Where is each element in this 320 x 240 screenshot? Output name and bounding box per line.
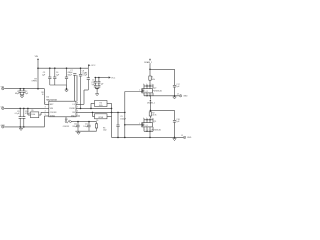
resistor R2 bbox=[149, 101, 156, 118]
svg-text:ON/OFF: ON/OFF bbox=[50, 112, 58, 114]
connector J4 GND bbox=[177, 93, 188, 97]
capacitor C3 bbox=[42, 68, 51, 85]
svg-text:0.1µF: 0.1µF bbox=[82, 72, 86, 74]
svg-text:VCC: VCC bbox=[91, 65, 96, 67]
ground comp bbox=[77, 131, 80, 134]
svg-text:VIN: VIN bbox=[35, 56, 39, 58]
wire VIN rail bbox=[4, 88, 44, 90]
svg-text:1500pF: 1500pF bbox=[120, 118, 126, 120]
svg-text:1µF: 1µF bbox=[101, 84, 104, 86]
svg-text:10: 10 bbox=[42, 94, 44, 96]
wire C13 top link bbox=[150, 68, 175, 70]
capacitor C17 bbox=[173, 69, 180, 96]
wire GND rail corner bbox=[44, 116, 46, 127]
svg-text:3: 3 bbox=[45, 107, 46, 109]
wire Q2 gate stub bbox=[141, 91, 142, 93]
svg-text:R5: R5 bbox=[31, 110, 33, 112]
wire cap tie 2 bbox=[50, 85, 67, 90]
svg-text:1µF: 1µF bbox=[92, 84, 95, 86]
svg-text:0.1µF: 0.1µF bbox=[15, 113, 21, 115]
svg-text:MAX5035B: MAX5035B bbox=[46, 98, 57, 101]
svg-text:GND: GND bbox=[1, 125, 6, 127]
op-amp U1 MAX5035B bbox=[46, 97, 76, 118]
power flag VCC bbox=[88, 64, 96, 67]
svg-text:1%: 1% bbox=[96, 120, 99, 122]
svg-text:Q2: Q2 bbox=[146, 91, 148, 93]
svg-text:2: 2 bbox=[45, 103, 46, 105]
wire ladder to flag bbox=[99, 77, 109, 79]
svg-text:VCC: VCC bbox=[111, 77, 116, 79]
svg-text:SGND: SGND bbox=[50, 116, 56, 118]
svg-text:Q2: Q2 bbox=[154, 88, 157, 90]
svg-text:FB: FB bbox=[72, 112, 75, 114]
capacitor C10 bbox=[22, 108, 31, 127]
svg-text:FDS6912A: FDS6912A bbox=[152, 129, 162, 132]
node ladder labels bbox=[91, 80, 103, 86]
wire gate Q1 bbox=[125, 124, 141, 126]
jumper JU1 bbox=[63, 117, 72, 128]
wire VIN vertical bbox=[37, 60, 39, 89]
svg-text:1µF: 1µF bbox=[42, 74, 46, 76]
svg-text:1µF: 1µF bbox=[176, 86, 180, 88]
svg-text:6: 6 bbox=[77, 111, 78, 113]
svg-text:Q1: Q1 bbox=[154, 121, 157, 123]
svg-text:1µF: 1µF bbox=[176, 121, 180, 123]
capacitor C2 bbox=[22, 88, 29, 95]
svg-text:68µF: 68µF bbox=[68, 74, 73, 76]
wire rail FB bbox=[80, 112, 126, 114]
svg-text:7: 7 bbox=[77, 107, 78, 109]
capacitor C9 bbox=[15, 108, 22, 127]
wire ON rail bbox=[4, 108, 44, 110]
capacitor C16 bbox=[116, 112, 126, 137]
transistor Q2 bbox=[139, 84, 162, 96]
capacitor C8 bbox=[79, 68, 86, 108]
capacitor C1 bbox=[15, 88, 22, 95]
power flag VIN top bbox=[35, 56, 39, 60]
svg-text:GND: GND bbox=[71, 116, 76, 118]
wire Q1 source bbox=[149, 131, 151, 137]
svg-text:100k: 100k bbox=[31, 114, 35, 116]
power flag VCC2 bbox=[109, 76, 116, 79]
ground left rail bbox=[19, 127, 22, 130]
svg-text:24.9k: 24.9k bbox=[152, 115, 156, 117]
svg-text:5: 5 bbox=[45, 114, 46, 116]
pin stubs U1 right bbox=[76, 103, 84, 117]
svg-text:330pF: 330pF bbox=[72, 126, 77, 128]
svg-text:PGND: PGND bbox=[69, 108, 75, 110]
wire bottom rail bbox=[112, 137, 184, 139]
svg-text:Q1: Q1 bbox=[146, 125, 148, 127]
connector J2 ON terminal bbox=[1, 106, 5, 109]
ground bottom rail bbox=[173, 137, 176, 140]
svg-text:249k: 249k bbox=[151, 79, 155, 81]
svg-text:68µF: 68µF bbox=[15, 93, 20, 95]
transistor Q1 bbox=[139, 118, 161, 132]
wire divider mid bbox=[111, 103, 113, 137]
wire ladder down bbox=[96, 89, 98, 93]
capacitor C13 bbox=[94, 78, 97, 89]
connector J5 GND bbox=[181, 135, 192, 139]
svg-text:GND: GND bbox=[183, 96, 188, 98]
capacitor C7 bbox=[68, 70, 77, 101]
wire gate net vertical bbox=[124, 92, 126, 138]
svg-text:10Ω: 10Ω bbox=[103, 130, 107, 132]
wire jumper net bbox=[71, 121, 96, 123]
ground input caps bbox=[20, 95, 23, 98]
svg-text:FDS6912A: FDS6912A bbox=[153, 90, 163, 93]
ground input caps 2 bbox=[65, 89, 68, 92]
capacitor C6 bbox=[82, 65, 90, 90]
capacitor C18 bbox=[173, 110, 180, 137]
ground source rail bbox=[173, 96, 176, 99]
wire C18 link bbox=[150, 110, 175, 112]
svg-text:0.1µF: 0.1µF bbox=[82, 75, 88, 77]
svg-text:C7: C7 bbox=[70, 70, 72, 72]
capacitor C12 bbox=[83, 122, 90, 132]
capacitor C4 bbox=[53, 68, 60, 85]
svg-text:U1: U1 bbox=[46, 97, 49, 99]
svg-text:VIN: VIN bbox=[1, 87, 5, 89]
capacitor C14 bbox=[97, 78, 100, 89]
svg-text:1µF: 1µF bbox=[56, 74, 60, 76]
resistor R3 bbox=[95, 122, 107, 132]
svg-text:OPEN: OPEN bbox=[98, 117, 104, 119]
svg-text:DRAIN_1: DRAIN_1 bbox=[147, 102, 155, 105]
capacitor C11 bbox=[72, 122, 79, 132]
svg-text:J4: J4 bbox=[177, 93, 179, 95]
connector J1 VIN terminal bbox=[1, 87, 5, 90]
wire GND rail bbox=[4, 126, 44, 128]
wire C6 to pin bbox=[84, 90, 88, 104]
svg-text:JU1: JU1 bbox=[65, 119, 68, 121]
svg-text:LX: LX bbox=[73, 104, 76, 106]
power flag DRAIN_2 bbox=[144, 58, 152, 64]
svg-text:OPEN: OPEN bbox=[31, 81, 37, 83]
wire ladder ties bbox=[95, 77, 100, 90]
wire rail LX bbox=[80, 108, 113, 110]
svg-text:VIN: VIN bbox=[50, 108, 54, 110]
svg-text:1: 1 bbox=[77, 114, 78, 116]
ground ladder bbox=[95, 93, 98, 96]
resistor R9 OPEN label bbox=[31, 78, 37, 82]
svg-text:8: 8 bbox=[77, 103, 78, 105]
resistor R6 OPEN bbox=[93, 112, 112, 122]
resistor R4 bbox=[91, 101, 112, 109]
resistor R5 bbox=[28, 108, 45, 117]
svg-text:4: 4 bbox=[45, 111, 46, 113]
connector J3 GND terminal bbox=[1, 125, 6, 128]
wire top rail bbox=[38, 67, 88, 69]
wire cap tie bbox=[20, 94, 24, 96]
svg-text:DRAIN_2: DRAIN_2 bbox=[144, 61, 152, 64]
wire Q1 gate stub bbox=[141, 124, 142, 126]
svg-text:100k: 100k bbox=[99, 105, 103, 107]
svg-text:ON/OFF: ON/OFF bbox=[63, 126, 69, 128]
wire source rail bbox=[144, 95, 179, 97]
svg-text:GND: GND bbox=[187, 137, 192, 139]
svg-text:J5: J5 bbox=[181, 135, 183, 137]
wire gate Q2 bbox=[125, 91, 141, 93]
capacitor C5 bbox=[65, 68, 73, 85]
wire VIN rail corner to pin bbox=[41, 89, 44, 105]
wire comp tie bbox=[75, 130, 96, 132]
power flag DRAIN_1 bbox=[147, 96, 155, 105]
svg-text:1µF: 1µF bbox=[25, 93, 29, 95]
wire drain2 bbox=[149, 63, 151, 76]
pin stubs U1 left bbox=[45, 103, 49, 117]
svg-text:BST: BST bbox=[50, 104, 55, 106]
svg-text:100pF: 100pF bbox=[83, 126, 88, 128]
svg-text:0.1µF: 0.1µF bbox=[68, 72, 72, 74]
resistor R1 bbox=[149, 76, 155, 86]
